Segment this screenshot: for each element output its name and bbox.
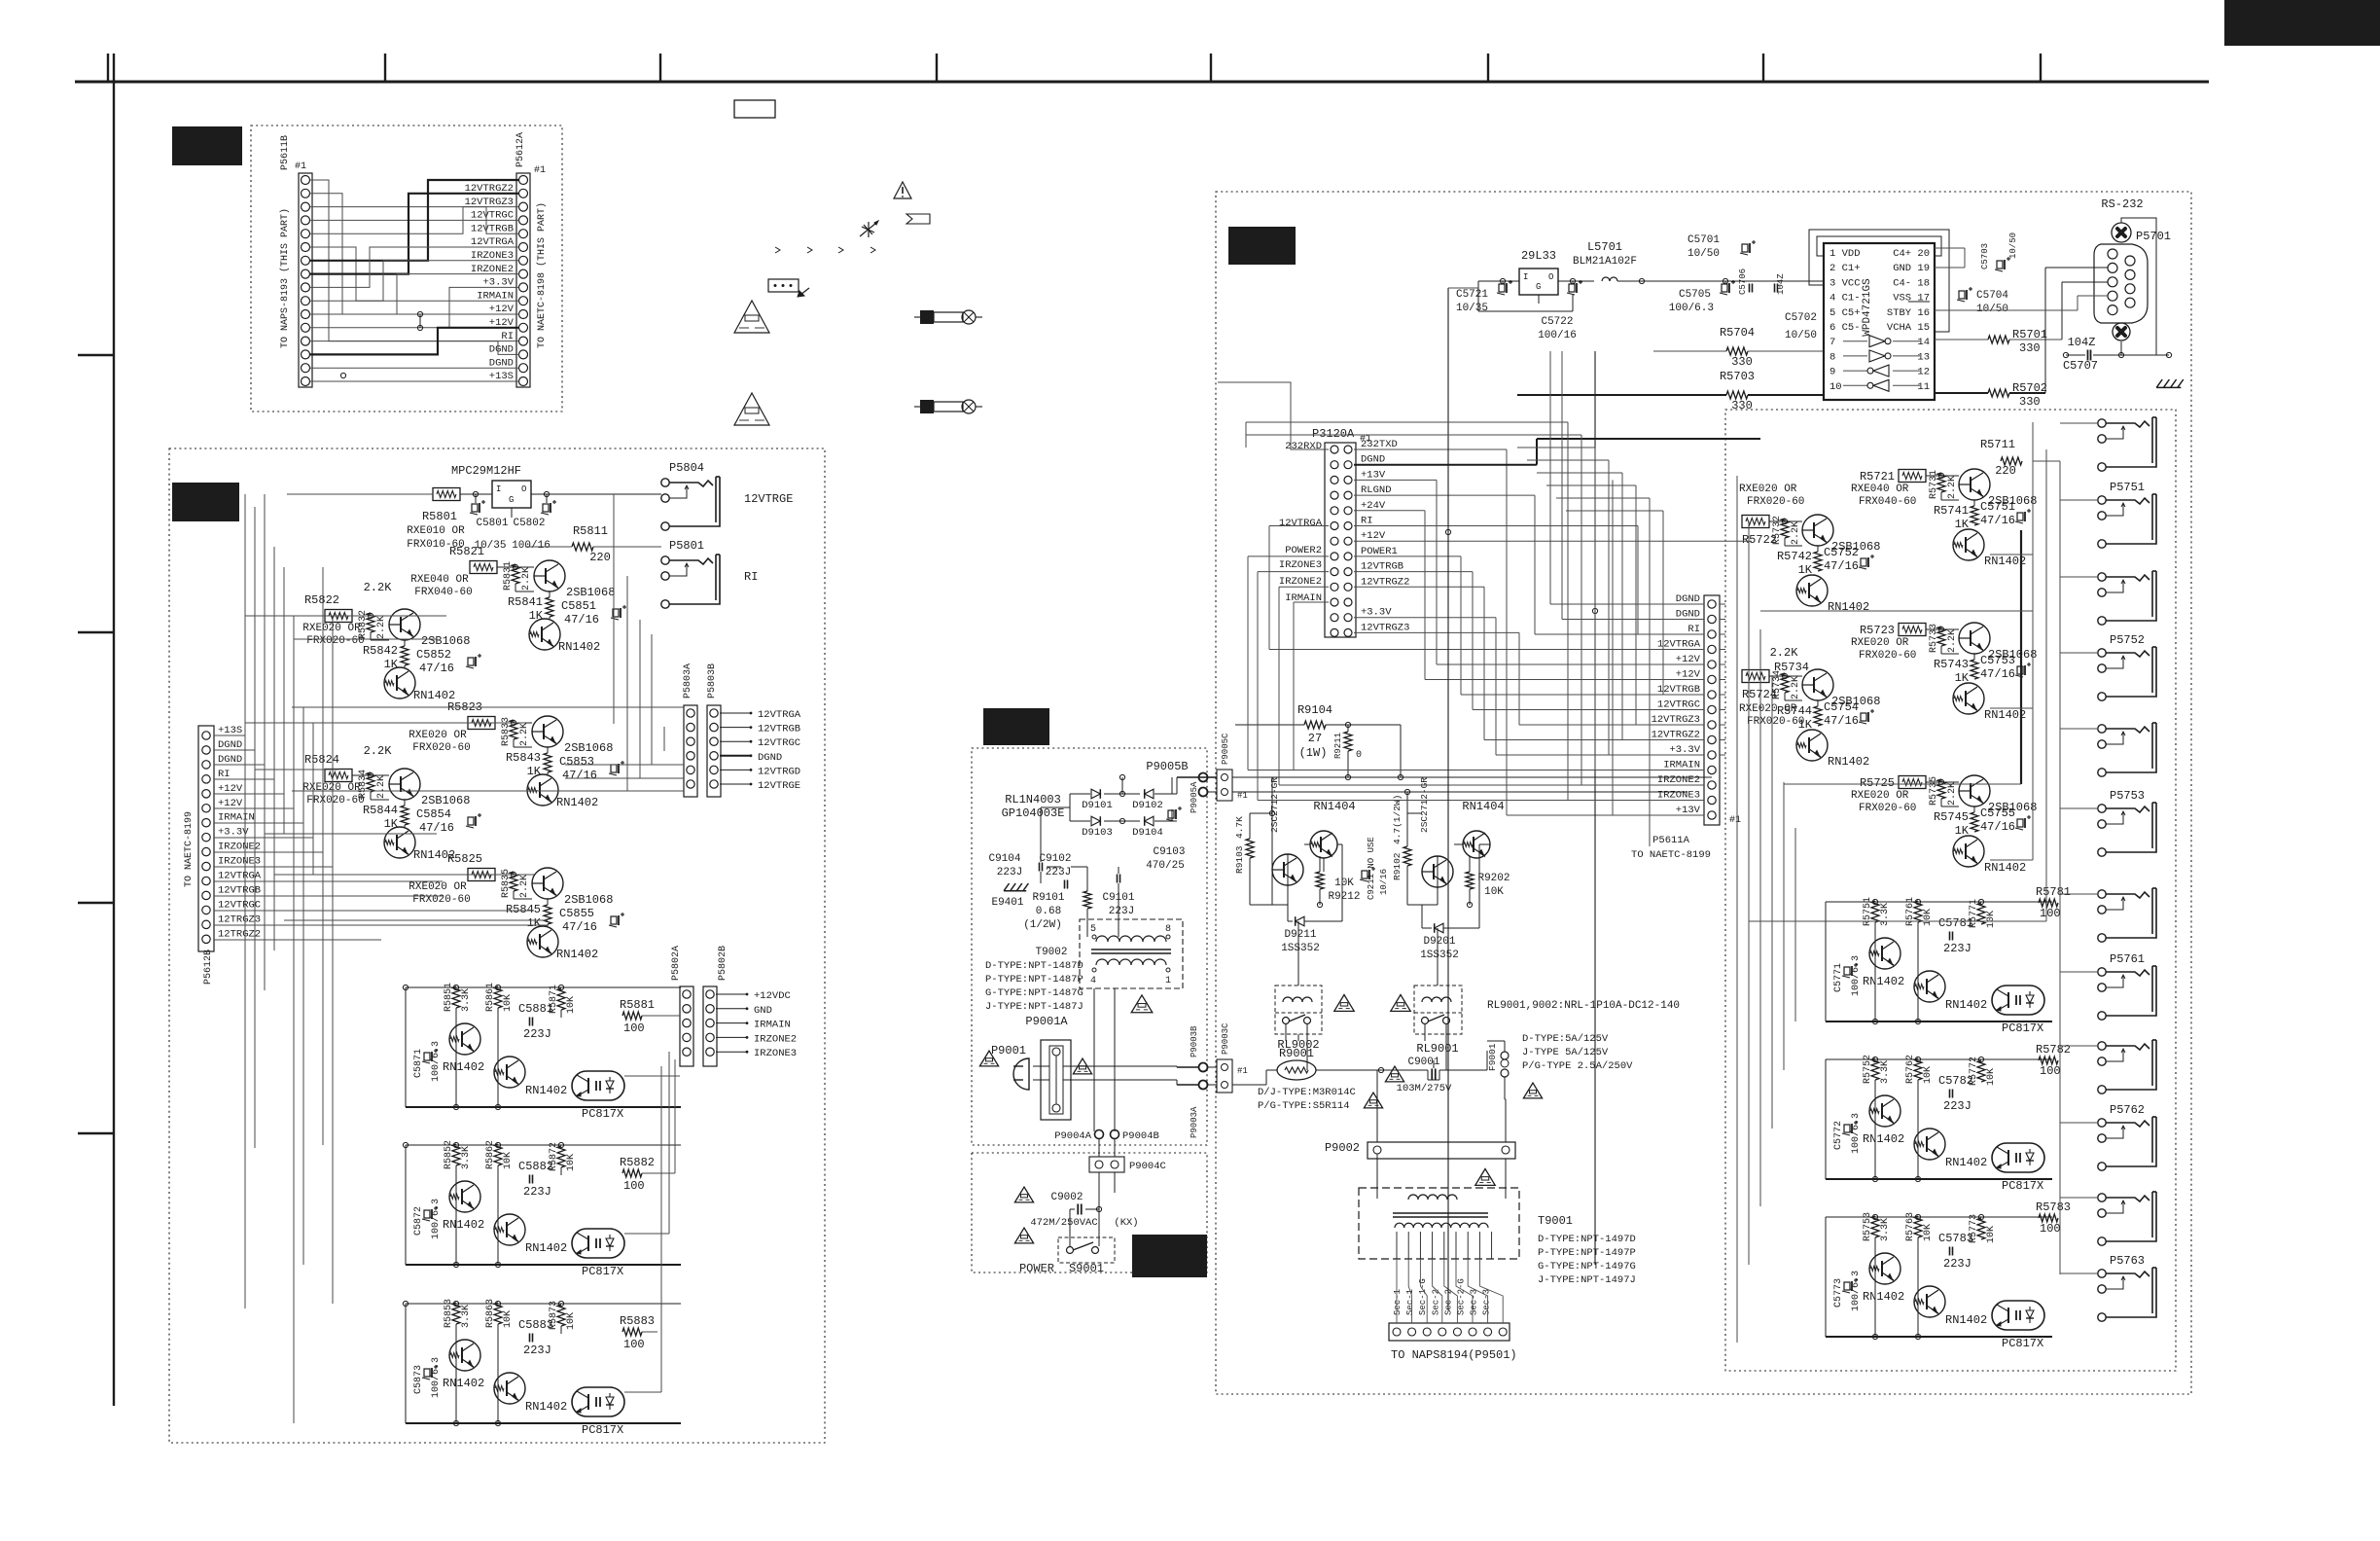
svg-text:RN1402: RN1402 <box>558 640 600 654</box>
svg-text:R9212: R9212 <box>1328 891 1360 903</box>
svg-text:R5872: R5872 <box>549 1142 559 1171</box>
svg-text:10/50: 10/50 <box>1687 248 1720 260</box>
svg-text:G-TYPE:NPT-1487G: G-TYPE:NPT-1487G <box>985 987 1083 999</box>
resistor R5882 100 <box>620 1156 655 1193</box>
svg-text:10/16: 10/16 <box>1379 869 1389 895</box>
resistor R5781 100 <box>2036 885 2071 920</box>
svg-text:+12V: +12V <box>218 783 243 795</box>
transistor 2SB1068 <box>1959 623 2037 662</box>
svg-text:IRMAIN: IRMAIN <box>477 290 514 302</box>
note RXE020 stage top-left <box>1739 484 1804 508</box>
transistor RN1402 b <box>1914 1129 1987 1169</box>
svg-text:R9102: R9102 <box>1392 852 1403 880</box>
svg-text:+12V: +12V <box>489 304 515 315</box>
net labels P5803B <box>720 709 801 792</box>
resistor R5732 2.2K <box>1772 516 1801 545</box>
svg-text:RN1402: RN1402 <box>1863 975 1904 988</box>
capacitor C5754 47/16 <box>1824 700 1874 728</box>
svg-text:G: G <box>1536 282 1541 292</box>
svg-text:C9001: C9001 <box>1407 1057 1439 1068</box>
optocoupler PC817X <box>572 1071 624 1121</box>
transistor RN1402 <box>527 926 598 961</box>
wires box A harness <box>310 180 519 381</box>
diode D9201 1SS352 <box>1420 923 1459 961</box>
wire stage output bus <box>292 494 684 791</box>
svg-text:12VTRGA: 12VTRGA <box>471 236 515 248</box>
svg-text:100/16: 100/16 <box>512 540 551 552</box>
capacitor C5883 223J <box>518 1318 553 1357</box>
svg-text:FRX020-60: FRX020-60 <box>412 742 470 754</box>
resistor R9202 10K <box>1466 872 1510 898</box>
svg-text:12VTRGD: 12VTRGD <box>758 766 800 777</box>
svg-text:O: O <box>521 484 526 494</box>
svg-text:POWER2: POWER2 <box>1285 545 1322 556</box>
svg-text:3.3K: 3.3K <box>1880 1218 1891 1241</box>
stage wires <box>352 613 405 667</box>
svg-text:IRMAIN: IRMAIN <box>218 812 255 824</box>
svg-text:Sec-1: Sec-1 <box>1405 1289 1415 1315</box>
resistor R5822 <box>304 593 352 623</box>
svg-text:RN1402: RN1402 <box>1984 861 2026 875</box>
wires power primary <box>1033 774 1217 1246</box>
svg-text:27: 27 <box>1308 732 1322 745</box>
net labels P5802B <box>716 990 797 1059</box>
svg-text:220: 220 <box>1995 464 2016 478</box>
net labels P3120A left <box>1279 441 1323 604</box>
svg-text:100: 100 <box>623 1179 645 1193</box>
transistor RN1402 <box>529 619 600 654</box>
resistor R5843 1K <box>506 751 551 778</box>
svg-text:I: I <box>496 484 501 494</box>
svg-text:C5772: C5772 <box>1833 1121 1844 1150</box>
black label box top-right corner <box>2224 0 2380 46</box>
svg-text:FRX040-60: FRX040-60 <box>1859 496 1916 508</box>
connector P9004A P9004B <box>1054 1130 1159 1143</box>
svg-text:+24V: +24V <box>1361 500 1386 512</box>
resistor R5741 1K <box>1934 504 1978 531</box>
svg-text:+13V: +13V <box>1361 469 1386 481</box>
warning triangle T9002 <box>1131 995 1153 1013</box>
svg-text:RXE020 OR: RXE020 OR <box>302 623 361 634</box>
capacitor C5707 104Z <box>2063 336 2172 373</box>
resistor R5742 1K <box>1777 550 1822 577</box>
svg-text:12VTRGZ3: 12VTRGZ3 <box>1361 622 1409 633</box>
svg-text:C5872: C5872 <box>413 1206 424 1236</box>
svg-text:#1: #1 <box>1729 815 1741 826</box>
transistor RN1402 b <box>1914 971 1987 1012</box>
svg-text:POWER1: POWER1 <box>1361 546 1398 557</box>
svg-text:P9003B: P9003B <box>1190 1025 1199 1057</box>
stage wires <box>1769 519 1818 552</box>
svg-text:12VTRGC: 12VTRGC <box>1657 699 1700 711</box>
svg-text:C5755: C5755 <box>1980 806 2015 820</box>
diode bridge RL1N4003 GP104003E <box>1002 789 1177 839</box>
svg-text:P9005B: P9005B <box>1146 760 1188 773</box>
stage wires <box>1926 473 1974 506</box>
transistor 2SB1068 <box>534 560 615 599</box>
svg-text:R5842: R5842 <box>363 644 398 658</box>
connector P5802B <box>703 946 728 1066</box>
svg-text:C5704: C5704 <box>1976 290 2008 302</box>
svg-text:12VTRGC: 12VTRGC <box>471 210 514 222</box>
svg-text:47/16: 47/16 <box>1980 820 2015 834</box>
svg-text:12VTRGZ3: 12VTRGZ3 <box>465 197 514 208</box>
svg-text:10K: 10K <box>1334 878 1354 889</box>
svg-text:10K: 10K <box>1923 1224 1934 1241</box>
svg-text:8: 8 <box>1165 924 1171 935</box>
wire bus box B verticals <box>245 494 333 1423</box>
capacitor C5882 223J <box>518 1160 553 1199</box>
svg-text:R5832: R5832 <box>358 610 369 639</box>
legend small warning triangle <box>894 182 911 198</box>
svg-text:C5701: C5701 <box>1687 234 1720 246</box>
svg-text:RN1402: RN1402 <box>1863 1132 1904 1146</box>
connector P9005C <box>1217 733 1248 801</box>
svg-text:P5752: P5752 <box>2110 633 2145 647</box>
resistor R5844 1K <box>363 804 409 831</box>
jack P5762 <box>2098 1103 2156 1170</box>
black label box power section <box>983 708 1049 745</box>
svg-text:100/6.3: 100/6.3 <box>430 1199 442 1239</box>
svg-text:D9201: D9201 <box>1423 936 1455 948</box>
resistor R5723 <box>1860 624 1926 638</box>
svg-text:C9102: C9102 <box>1039 853 1071 865</box>
wire regulator rail <box>287 491 661 503</box>
svg-text:10K: 10K <box>1986 911 1997 928</box>
legend 3-pin connector <box>768 279 809 297</box>
jack P575x output <box>2098 417 2156 471</box>
svg-text:R5781: R5781 <box>2036 885 2071 899</box>
svg-text:8: 8 <box>1829 351 1835 363</box>
capacitor C9101 223J <box>1102 875 1134 918</box>
svg-text:1SS352: 1SS352 <box>1281 943 1320 954</box>
stage bus wires <box>403 985 681 1109</box>
transistor RN1402 a <box>1863 938 1904 988</box>
svg-text:DGND: DGND <box>1676 609 1700 621</box>
resistor R5724 <box>1742 670 1777 702</box>
svg-text:2.2K: 2.2K <box>1791 521 1801 545</box>
svg-text:IRZONE3: IRZONE3 <box>1657 790 1700 802</box>
svg-text:223J: 223J <box>1943 1099 1971 1113</box>
resistor R9101 0.68 <box>1023 891 1091 931</box>
svg-text:#1: #1 <box>295 161 306 172</box>
svg-text:47/16: 47/16 <box>419 662 454 675</box>
svg-text:RN1402: RN1402 <box>556 948 598 961</box>
resistor R5733 2.2K <box>1929 624 1958 653</box>
svg-text:12VTRGZ3: 12VTRGZ3 <box>1652 714 1700 726</box>
capacitor C5751 47/16 <box>1980 500 2031 527</box>
svg-text:R5873: R5873 <box>549 1301 559 1330</box>
svg-text:100/6.3: 100/6.3 <box>430 1357 442 1398</box>
resistor R5763 10K <box>1905 1212 1934 1241</box>
svg-text:12TRGZ2: 12TRGZ2 <box>218 928 261 940</box>
svg-text:4: 4 <box>1090 976 1096 986</box>
svg-text:12VTRGA: 12VTRGA <box>1279 518 1323 529</box>
svg-text:R5824: R5824 <box>304 753 339 767</box>
svg-text:12TRGZ3: 12TRGZ3 <box>218 914 261 925</box>
svg-text:O: O <box>1548 272 1553 282</box>
capacitor C5752 47/16 <box>1824 546 1874 573</box>
svg-text:47/16: 47/16 <box>419 821 454 835</box>
capacitor C5701 10/50 <box>1687 234 1756 260</box>
resistor R9104 27 (1W) <box>1235 703 1401 760</box>
svg-text:10K: 10K <box>1986 1068 1997 1086</box>
svg-text:DGND: DGND <box>758 752 782 764</box>
wire bundle box E feeds <box>1720 604 1725 755</box>
connector P5611B <box>280 135 312 387</box>
svg-text:IRZONE2: IRZONE2 <box>218 842 261 853</box>
svg-text:RN1402: RN1402 <box>525 1241 567 1255</box>
svg-text:12VTRGZ2: 12VTRGZ2 <box>1361 576 1409 588</box>
svg-text:P5611A: P5611A <box>1652 835 1690 846</box>
svg-text:47/16: 47/16 <box>1824 714 1859 728</box>
svg-text:RN1402: RN1402 <box>556 796 598 809</box>
svg-text:2.2K: 2.2K <box>1947 476 1958 499</box>
wire regulator rail C <box>1478 278 1824 311</box>
connector P9005B pins <box>1146 760 1207 813</box>
resistor R5782 100 <box>2036 1043 2071 1078</box>
svg-text:2 C1+: 2 C1+ <box>1829 263 1861 274</box>
switch S9001 POWER <box>1019 1237 1115 1275</box>
svg-text:+3.3V: +3.3V <box>218 827 249 839</box>
svg-text:10K: 10K <box>566 1154 577 1171</box>
svg-text:D9211: D9211 <box>1284 929 1316 941</box>
svg-text:RN1402: RN1402 <box>443 1377 484 1390</box>
svg-text:470/25: 470/25 <box>1146 860 1185 872</box>
svg-text:C5853: C5853 <box>559 755 594 769</box>
resistor R9103 4.7K <box>1234 816 1254 874</box>
svg-text:P5804: P5804 <box>669 461 704 475</box>
transistor RN1402 <box>1953 529 2026 568</box>
capacitor C5855 47/16 <box>559 907 624 934</box>
svg-text:R5861: R5861 <box>485 983 496 1012</box>
optocoupler PC817X <box>1992 986 2044 1035</box>
svg-text:R5853: R5853 <box>444 1299 454 1328</box>
svg-text:4.7(1/2W): 4.7(1/2W) <box>1392 795 1403 844</box>
svg-text:1 VDD: 1 VDD <box>1829 248 1861 260</box>
transistor RN1404 a <box>1310 800 1356 858</box>
svg-text:Sec-3: Sec-3 <box>1482 1289 1492 1315</box>
warning triangle plug <box>979 1051 998 1066</box>
svg-text:10/35: 10/35 <box>1456 303 1488 314</box>
svg-text:3 VCC: 3 VCC <box>1829 277 1861 289</box>
svg-text:223J: 223J <box>997 867 1022 878</box>
svg-text:F9001: F9001 <box>1487 1043 1498 1071</box>
stage bus wires <box>1826 1057 2052 1181</box>
svg-text:RI: RI <box>1361 516 1373 527</box>
svg-text:GP104003E: GP104003E <box>1002 806 1065 820</box>
svg-text:2.2K: 2.2K <box>364 744 393 758</box>
svg-text:C5773: C5773 <box>1833 1278 1844 1308</box>
svg-text:R5843: R5843 <box>506 751 541 765</box>
wire bundle top rows to box E <box>1246 422 1663 511</box>
warning triangle P9001A <box>1073 1058 1091 1074</box>
note RXE020 OR <box>409 730 470 754</box>
IC 29L33 <box>1519 249 1558 295</box>
svg-text:12VTRGE: 12VTRGE <box>758 780 800 792</box>
resistor R5852 3.3K <box>444 1140 472 1169</box>
svg-text:RXE020 OR: RXE020 OR <box>302 782 361 794</box>
svg-text:#1: #1 <box>1237 1066 1248 1076</box>
resistor R5883 100 <box>620 1314 655 1351</box>
capacitor C9102 223J <box>1039 853 1071 889</box>
svg-text:104Z: 104Z <box>1776 273 1786 295</box>
svg-text:13: 13 <box>1917 351 1930 363</box>
svg-text:R5834: R5834 <box>358 770 369 799</box>
wire long verticals box C <box>1445 288 1650 1310</box>
svg-text:12VTRGB: 12VTRGB <box>218 884 261 896</box>
svg-text:R5871: R5871 <box>549 985 559 1014</box>
resistor R5753 3.3K <box>1863 1212 1891 1241</box>
svg-text:C5754: C5754 <box>1824 700 1859 714</box>
svg-text:IRZONE2: IRZONE2 <box>471 264 514 275</box>
svg-text:RN1402: RN1402 <box>525 1400 567 1414</box>
svg-text:J-TYPE 5A/125V: J-TYPE 5A/125V <box>1522 1047 1609 1058</box>
label T9001 types <box>1538 1214 1636 1286</box>
svg-text:G: G <box>509 495 514 505</box>
svg-text:FRX040-60: FRX040-60 <box>414 587 472 598</box>
resistor R5821 <box>449 545 497 574</box>
svg-text:D-TYPE:5A/125V: D-TYPE:5A/125V <box>1522 1033 1609 1045</box>
capacitor C5801 <box>470 500 509 552</box>
net labels P5612B <box>218 725 262 940</box>
svg-text:2.2K: 2.2K <box>376 775 387 799</box>
capacitor C5852 47/16 <box>416 648 481 675</box>
svg-text:3.3K: 3.3K <box>1880 903 1891 926</box>
svg-text:D9102: D9102 <box>1132 800 1163 811</box>
svg-text:C4+ 20: C4+ 20 <box>1893 248 1930 260</box>
optocoupler PC817X <box>572 1387 624 1437</box>
svg-text:DGND: DGND <box>1676 593 1700 605</box>
svg-text:2SB1068: 2SB1068 <box>564 741 613 755</box>
svg-text:P5802B: P5802B <box>718 946 728 981</box>
wire bus box E horizontals <box>1749 461 2060 921</box>
svg-text:223J: 223J <box>1943 942 1971 955</box>
svg-text:10K: 10K <box>503 1310 514 1328</box>
resistor R9212 10K <box>1316 872 1361 903</box>
svg-text:RN1402: RN1402 <box>1984 708 2026 722</box>
capacitor C5753 47/16 <box>1980 654 2031 681</box>
svg-text:POWER: POWER <box>1019 1262 1054 1275</box>
svg-text:P5751: P5751 <box>2110 481 2145 494</box>
dashed border box C <box>1216 192 2191 1394</box>
svg-text:RXE020 OR: RXE020 OR <box>1851 637 1909 649</box>
svg-text:2.2K: 2.2K <box>1770 646 1799 660</box>
svg-text:12VTRGA: 12VTRGA <box>758 709 801 721</box>
capacitor C5705 100/6.3 <box>1669 280 1735 314</box>
svg-text:S9001: S9001 <box>1069 1262 1104 1275</box>
svg-text:D/J-TYPE:M3R014C: D/J-TYPE:M3R014C <box>1258 1087 1356 1098</box>
resistor R5735 2.2K <box>1929 776 1958 806</box>
svg-text:C5873: C5873 <box>413 1365 424 1394</box>
svg-text:R5721: R5721 <box>1860 470 1895 484</box>
resistor R5725 <box>1860 776 1926 791</box>
transistor 2SB1068 <box>1959 469 2037 508</box>
left ruler line <box>78 54 114 1406</box>
resistor R5881 100 <box>620 998 655 1035</box>
jack P5751 <box>2098 481 2156 548</box>
svg-text:FRX020-60: FRX020-60 <box>306 635 364 647</box>
svg-text:RXE020 OR: RXE020 OR <box>409 881 467 893</box>
resistor R5873 10K <box>549 1301 577 1330</box>
svg-text:BLM21A102F: BLM21A102F <box>1573 256 1637 268</box>
legend fuse icon 1 <box>914 310 982 324</box>
svg-text:R5801: R5801 <box>422 510 457 523</box>
black label box section B <box>172 483 239 521</box>
svg-text:5 C5+: 5 C5+ <box>1829 307 1861 319</box>
resistor R5801 <box>407 488 465 552</box>
note RXE020 OR <box>302 782 364 806</box>
svg-text:P-TYPE:NPT-1487P: P-TYPE:NPT-1487P <box>985 974 1083 986</box>
capacitor C5853 47/16 <box>559 755 624 782</box>
label 2.2K stage4E <box>1770 646 1809 674</box>
transistor RN1402 <box>384 827 455 862</box>
svg-text:2SC2712-GR: 2SC2712-GR <box>1269 777 1280 833</box>
svg-text:IRZONE2: IRZONE2 <box>754 1033 797 1045</box>
warning triangles relays <box>1334 995 1354 1012</box>
wires secondary fanout <box>1397 1259 1503 1323</box>
svg-text:R9101: R9101 <box>1032 892 1064 904</box>
jack P575x output <box>2098 571 2156 625</box>
RS-232 connector P5701 <box>2094 197 2171 355</box>
svg-text:220: 220 <box>589 551 611 564</box>
svg-text:RL1N4003: RL1N4003 <box>1005 793 1061 806</box>
connector P9003B pins <box>1190 1025 1208 1138</box>
transistor RN1402 b <box>494 1057 567 1097</box>
transistor RN1402 a <box>1863 1095 1904 1146</box>
svg-text:100/16: 100/16 <box>1538 330 1577 341</box>
svg-text:9: 9 <box>1829 367 1835 378</box>
svg-text:12VTRGC: 12VTRGC <box>218 899 261 911</box>
svg-text:P9004C: P9004C <box>1129 1161 1166 1172</box>
svg-text:P5611B: P5611B <box>280 135 291 170</box>
svg-text:R5735: R5735 <box>1929 776 1939 806</box>
svg-text:RN1402: RN1402 <box>1863 1290 1904 1304</box>
svg-text:R5731: R5731 <box>1929 470 1939 499</box>
resistor R5783 100 <box>2036 1201 2071 1236</box>
svg-text:100/6.3: 100/6.3 <box>1850 955 1862 996</box>
resistor R5731 2.2K <box>1929 470 1958 499</box>
svg-text:WPD4721GS: WPD4721GS <box>1862 278 1873 337</box>
svg-text:C5854: C5854 <box>416 807 451 821</box>
resistor R5842 1K <box>363 644 409 671</box>
svg-text:10: 10 <box>1829 381 1842 393</box>
svg-text:4.7K: 4.7K <box>1234 816 1245 839</box>
optocoupler PC817X <box>572 1229 624 1278</box>
svg-text:103M/275V: 103M/275V <box>1397 1083 1452 1094</box>
svg-text:223J: 223J <box>523 1027 551 1041</box>
svg-text:FRX020-60: FRX020-60 <box>306 795 364 806</box>
svg-text:223J: 223J <box>523 1344 551 1357</box>
svg-text:FRX020-60: FRX020-60 <box>1747 496 1804 508</box>
transformer T9001 <box>1359 1188 1519 1259</box>
svg-text:C5855: C5855 <box>559 907 594 920</box>
svg-text:R5723: R5723 <box>1860 624 1895 637</box>
svg-text:C4- 18: C4- 18 <box>1893 277 1930 289</box>
svg-text:2.2K: 2.2K <box>1947 629 1958 653</box>
jack P575x output <box>2098 888 2156 942</box>
svg-text:D9103: D9103 <box>1082 827 1113 839</box>
stage wires <box>495 720 548 774</box>
svg-text:GND: GND <box>754 1005 772 1017</box>
svg-text:47/16: 47/16 <box>562 920 597 934</box>
svg-text:IRMAIN: IRMAIN <box>1663 760 1700 771</box>
svg-text:R5821: R5821 <box>449 545 484 558</box>
svg-text:4 C1-: 4 C1- <box>1829 293 1861 305</box>
svg-text:C5721: C5721 <box>1456 289 1488 301</box>
svg-text:2.2K: 2.2K <box>1791 676 1801 699</box>
top ruler line <box>75 54 2209 82</box>
